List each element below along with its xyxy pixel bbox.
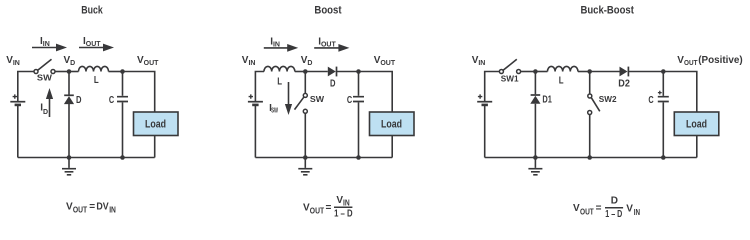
- svg-text:Buck: Buck: [81, 5, 103, 17]
- wire node D1 to inductor: [535, 71, 547, 73]
- wire node VD to diode boost: [305, 71, 328, 73]
- junction capacitor at rail buck-boost: [661, 155, 666, 160]
- svg-text:=: =: [326, 203, 332, 214]
- wire battery top to inductor: [255, 72, 264, 102]
- svg-text:D: D: [76, 95, 82, 106]
- svg-text:IN: IN: [634, 208, 640, 217]
- ground buck-boost: [528, 158, 542, 175]
- current arrow IOUT boost: [314, 44, 349, 52]
- svg-text:Load: Load: [145, 119, 166, 131]
- svg-text:IOUT: IOUT: [83, 36, 101, 48]
- junction D1 at rail: [533, 155, 538, 160]
- battery B2: [248, 102, 263, 105]
- svg-text:=: =: [89, 201, 95, 212]
- svg-text:VD: VD: [301, 55, 313, 67]
- node D1 top: [533, 69, 538, 74]
- svg-text:C: C: [648, 95, 653, 106]
- wire node to load top corner: [123, 72, 155, 113]
- svg-text:IIN: IIN: [40, 36, 50, 48]
- wire load bottom to rail buck-boost: [696, 136, 698, 158]
- svg-text:C: C: [347, 95, 352, 106]
- svg-text:Load: Load: [381, 119, 402, 131]
- battery plus sign buck-boost: [478, 94, 482, 98]
- junction capacitor at rail boost: [356, 155, 361, 160]
- svg-text:D: D: [330, 78, 336, 89]
- svg-text:IIN: IIN: [270, 36, 280, 48]
- inductor L boost: [264, 66, 295, 71]
- current arrow ISW: [285, 82, 292, 115]
- current arrow IIN boost: [264, 44, 298, 52]
- battery B1: [10, 102, 25, 105]
- svg-text:SW: SW: [271, 108, 278, 115]
- svg-text:L: L: [559, 76, 564, 87]
- node SW2 top: [587, 69, 592, 74]
- svg-text:Buck-Boost: Buck-Boost: [581, 5, 635, 17]
- load box buck-boost: [674, 112, 719, 136]
- battery plus sign: [13, 94, 17, 98]
- node C top buck-boost: [661, 69, 666, 74]
- formula VOUT = VIN over 1 minus D: [303, 195, 353, 220]
- load box boost: [370, 112, 415, 136]
- capacitor plus sign: [658, 91, 662, 95]
- svg-text:IN: IN: [109, 205, 116, 214]
- capacitor C buck-boost: [658, 72, 669, 158]
- wire node C to load corner buck-boost: [663, 72, 697, 113]
- wire SW1 to node D1: [521, 71, 536, 73]
- diode D2: [620, 67, 629, 77]
- wire battery bottom to rail: [17, 106, 19, 158]
- switch SW2: [588, 72, 600, 158]
- svg-text:L: L: [94, 75, 99, 86]
- svg-text:DV: DV: [96, 201, 109, 212]
- node VD boost: [303, 69, 308, 74]
- switch SW boost: [295, 72, 308, 158]
- svg-text:VIN: VIN: [472, 55, 486, 67]
- wire load bottom to rail boost: [391, 136, 393, 158]
- svg-text:VOUT: VOUT: [137, 55, 159, 67]
- svg-text:SW: SW: [37, 73, 53, 83]
- svg-text:Load: Load: [686, 119, 707, 131]
- switch SW: [34, 59, 55, 73]
- svg-text:V: V: [573, 203, 580, 214]
- ground boost: [298, 158, 312, 175]
- svg-text:IN: IN: [343, 199, 350, 208]
- wire diode D2 to node C: [628, 71, 663, 73]
- junction switch at rail boost: [303, 155, 308, 160]
- svg-text:SW1: SW1: [501, 74, 519, 84]
- current arrow IIN: [32, 44, 67, 52]
- wire inductor to node VD boost: [295, 71, 306, 73]
- svg-text:D: D: [611, 195, 618, 206]
- node VD: [67, 69, 72, 74]
- junction capacitor at rail: [120, 155, 125, 160]
- battery B3: [477, 102, 492, 105]
- svg-text:V: V: [626, 203, 633, 214]
- capacitor C boost: [353, 72, 364, 158]
- svg-text:C: C: [109, 95, 114, 106]
- svg-text:(Positive): (Positive): [698, 55, 743, 66]
- svg-text:OUT: OUT: [73, 205, 87, 214]
- ground: [62, 158, 76, 175]
- battery plus sign boost: [249, 94, 253, 98]
- svg-text:1 – D: 1 – D: [334, 209, 353, 220]
- wire node VD to inductor: [69, 71, 79, 73]
- wire node C to load corner boost: [359, 72, 393, 113]
- svg-text:L: L: [277, 77, 282, 88]
- formula VOUT = D over 1 minus D times VIN: [573, 195, 640, 220]
- svg-text:D: D: [43, 109, 48, 116]
- capacitor C: [117, 72, 128, 158]
- svg-text:VIN: VIN: [242, 55, 256, 67]
- wire bottom rail boost: [255, 157, 392, 159]
- svg-text:VOUT: VOUT: [374, 55, 396, 67]
- wire switch to node VD: [55, 71, 69, 73]
- svg-text:SW2: SW2: [599, 94, 617, 104]
- switch SW1: [499, 59, 520, 73]
- svg-text:1 – D: 1 – D: [605, 209, 622, 220]
- inductor L: [79, 66, 109, 71]
- wire node SW2 to diode D2: [590, 71, 620, 73]
- wire diode branch: [68, 72, 70, 158]
- current arrow IOUT: [79, 44, 114, 52]
- wire battery top to switch: [18, 72, 34, 102]
- node C boost: [356, 69, 361, 74]
- svg-text:IOUT: IOUT: [318, 36, 336, 48]
- svg-text:VIN: VIN: [6, 55, 20, 67]
- junction diode at rail: [67, 155, 72, 160]
- diode D: [64, 95, 74, 104]
- wire bottom rail: [18, 157, 155, 159]
- wire battery bottom to rail buck-boost: [484, 106, 486, 158]
- current arrow ID: [46, 88, 53, 117]
- wire battery bottom to rail boost: [254, 106, 256, 158]
- load box: [134, 112, 179, 136]
- diode D1: [530, 95, 540, 104]
- formula VOUT = DVIN: [66, 201, 116, 214]
- wire diode to node C boost: [337, 71, 359, 73]
- svg-text:OUT: OUT: [310, 207, 324, 216]
- svg-text:D1: D1: [542, 94, 552, 105]
- svg-text:OUT: OUT: [580, 207, 594, 216]
- wire load bottom to rail: [154, 136, 156, 158]
- diode D1 branch wire: [534, 72, 536, 158]
- svg-text:=: =: [596, 203, 602, 214]
- wire inductor to node SW2: [578, 71, 590, 73]
- wire inductor to node C: [109, 71, 123, 73]
- svg-text:SW: SW: [310, 94, 325, 104]
- svg-text:D2: D2: [618, 78, 630, 89]
- inductor L buck-boost: [548, 66, 578, 71]
- junction SW2 at rail: [587, 155, 592, 160]
- diode D boost: [328, 67, 337, 77]
- wire battery top to SW1: [485, 72, 500, 102]
- svg-text:Boost: Boost: [314, 5, 341, 17]
- svg-text:OUT: OUT: [684, 60, 698, 67]
- svg-text:VD: VD: [64, 55, 76, 67]
- node C top junction: [120, 69, 125, 74]
- wire bottom rail buck-boost: [485, 157, 697, 159]
